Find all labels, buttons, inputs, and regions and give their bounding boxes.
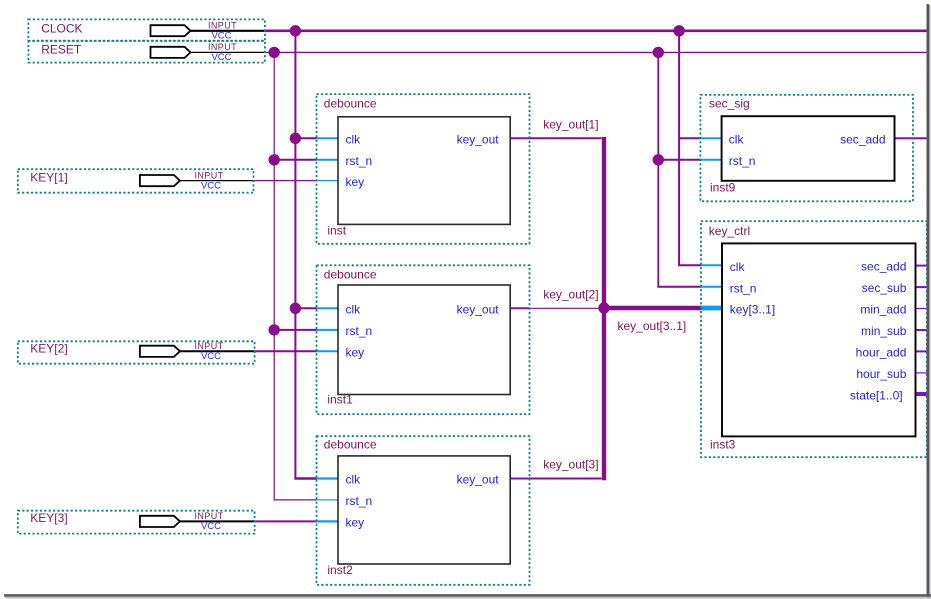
svg-text:VCC: VCC xyxy=(201,180,221,191)
svg-text:VCC: VCC xyxy=(201,351,221,362)
svg-text:clk: clk xyxy=(346,303,362,317)
svg-text:key_out[3]: key_out[3] xyxy=(543,458,598,472)
svg-text:INPUT: INPUT xyxy=(195,511,224,521)
svg-text:state[1..0]: state[1..0] xyxy=(850,389,903,403)
svg-text:key_ctrl: key_ctrl xyxy=(709,224,750,238)
svg-text:clk: clk xyxy=(346,133,362,147)
svg-text:rst_n: rst_n xyxy=(730,281,757,295)
svg-text:inst1: inst1 xyxy=(327,392,353,406)
svg-text:clk: clk xyxy=(730,260,746,274)
svg-text:INPUT: INPUT xyxy=(195,341,224,351)
svg-text:debounce: debounce xyxy=(324,97,377,111)
svg-text:sec_add: sec_add xyxy=(861,260,906,274)
svg-text:RESET: RESET xyxy=(41,43,82,57)
svg-text:inst3: inst3 xyxy=(710,437,736,451)
svg-text:min_add: min_add xyxy=(860,303,906,317)
svg-text:key_out: key_out xyxy=(457,473,500,487)
svg-text:sec_sig: sec_sig xyxy=(709,97,750,111)
svg-text:rst_n: rst_n xyxy=(346,154,373,168)
svg-text:sec_sub: sec_sub xyxy=(862,281,907,295)
svg-text:key: key xyxy=(346,175,365,189)
svg-text:VCC: VCC xyxy=(211,31,231,42)
svg-text:key[3..1]: key[3..1] xyxy=(730,303,775,317)
svg-text:rst_n: rst_n xyxy=(346,324,373,338)
svg-text:key_out[2]: key_out[2] xyxy=(543,288,598,302)
svg-text:key: key xyxy=(346,516,365,530)
svg-text:sec_add: sec_add xyxy=(840,133,885,147)
svg-text:min_sub: min_sub xyxy=(861,324,907,338)
svg-text:INPUT: INPUT xyxy=(208,42,237,52)
svg-text:rst_n: rst_n xyxy=(729,154,756,168)
svg-text:VCC: VCC xyxy=(201,521,221,532)
svg-text:clk: clk xyxy=(346,473,362,487)
svg-text:inst9: inst9 xyxy=(710,181,736,195)
svg-text:KEY[3]: KEY[3] xyxy=(30,511,67,525)
svg-text:debounce: debounce xyxy=(324,268,377,282)
svg-text:inst2: inst2 xyxy=(327,563,353,577)
svg-text:KEY[1]: KEY[1] xyxy=(30,170,67,184)
svg-text:key_out: key_out xyxy=(457,303,500,317)
svg-text:inst: inst xyxy=(327,224,346,238)
svg-text:debounce: debounce xyxy=(324,437,377,451)
svg-text:INPUT: INPUT xyxy=(208,21,237,31)
svg-text:KEY[2]: KEY[2] xyxy=(30,341,67,355)
svg-text:CLOCK: CLOCK xyxy=(41,22,82,36)
svg-text:VCC: VCC xyxy=(211,52,231,63)
svg-text:key: key xyxy=(346,346,365,360)
svg-text:INPUT: INPUT xyxy=(195,170,224,180)
svg-text:key_out[1]: key_out[1] xyxy=(543,117,598,131)
svg-text:clk: clk xyxy=(729,133,745,147)
svg-text:hour_sub: hour_sub xyxy=(856,367,906,381)
svg-text:hour_add: hour_add xyxy=(856,346,907,360)
svg-text:key_out: key_out xyxy=(457,133,500,147)
svg-text:key_out[3..1]: key_out[3..1] xyxy=(618,319,687,333)
svg-text:rst_n: rst_n xyxy=(346,494,373,508)
